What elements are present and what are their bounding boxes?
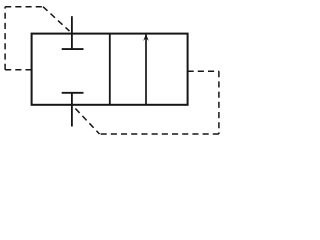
right pilot line: diagonal to bottom tappet (75, 109, 99, 135)
left pilot line: horizontal into left edge (5, 69, 32, 71)
section divider line (109, 34, 111, 105)
valve body envelope (32, 34, 188, 105)
right pilot line: vertical drop (218, 71, 220, 134)
right pilot line: bottom horizontal (100, 133, 219, 135)
bottom tappet bar (62, 92, 84, 94)
right pilot line: horizontal from right edge (188, 70, 219, 72)
top tappet stem (71, 16, 73, 49)
flow arrowhead (143, 34, 149, 41)
left pilot line: vertical riser (4, 7, 6, 70)
flow arrow shaft (145, 35, 147, 105)
left pilot line: top horizontal (5, 6, 43, 8)
left pilot line: diagonal to top tappet (43, 7, 70, 31)
top tappet bar (62, 48, 84, 50)
bottom tappet stem (71, 93, 73, 127)
